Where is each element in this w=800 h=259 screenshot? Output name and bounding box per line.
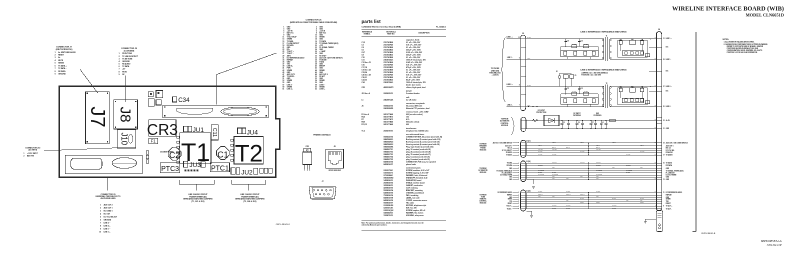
svg-text:56: 56 — [315, 82, 317, 84]
svg-text:DC INPUT: DC INPUT — [538, 110, 545, 112]
svg-text:DC VOL SELECT: DC VOL SELECT — [104, 217, 118, 219]
svg-text:DC THERM: DC THERM — [538, 174, 544, 176]
svg-text:GND: GND — [538, 196, 541, 198]
svg-text:GND: GND — [666, 128, 669, 130]
svg-text:MODULE: MODULE — [480, 150, 487, 152]
phone-line stub wires and labels — [507, 37, 521, 107]
svg-text:53: 53 — [282, 80, 284, 82]
svg-text:31: 31 — [282, 57, 284, 59]
svg-text:GND: GND — [666, 168, 669, 170]
svg-text:C17: C17 — [567, 88, 570, 90]
svg-text:RX+: RX+ — [287, 49, 290, 51]
svg-text:26: 26 — [315, 51, 317, 53]
capacitor C11 (board) — [211, 125, 219, 140]
svg-text:5: 5 — [100, 217, 101, 219]
svg-text:JU4: JU4 — [247, 129, 259, 136]
svg-text:LINE 2 −: LINE 2 − — [104, 223, 111, 225]
connector bus group 1 (left) — [521, 140, 526, 157]
svg-text:C6: C6 — [578, 122, 580, 124]
svg-text:8: 8 — [316, 33, 317, 35]
svg-text:27: 27 — [663, 86, 665, 88]
svg-text:19: 19 — [663, 142, 665, 144]
right bus pin labels — [655, 37, 688, 210]
capacitor network line 1 — [561, 38, 598, 59]
ground hook group 2 — [527, 179, 534, 184]
svg-text:27: 27 — [282, 53, 284, 55]
misc jumper label — [146, 151, 173, 163]
termination component at bus bottom — [656, 211, 663, 232]
group 2 left labels — [497, 162, 520, 181]
svg-text:FILTERING: FILTERING — [594, 115, 603, 117]
brace: to phone lines — [501, 38, 505, 102]
svg-text:LINE 2 INTERFACE / IMPEDANCE M: LINE 2 INTERFACE / IMPEDANCE MATCHING — [581, 68, 627, 71]
svg-text:R2 600: R2 600 — [584, 43, 588, 45]
svg-text:NC OUT: NC OUT — [104, 214, 111, 216]
svg-text:4: 4 — [55, 59, 56, 62]
svg-text:TO PHONE: TO PHONE — [491, 68, 499, 70]
svg-text:GND: GND — [552, 196, 555, 198]
bracket for T1 jumper group — [179, 180, 214, 191]
svg-text:5: 5 — [55, 63, 56, 65]
label: to phone lines — [489, 68, 501, 76]
svg-text:N/C: N/C — [666, 91, 668, 93]
svg-text:MIC LO: MIC LO — [666, 148, 672, 150]
parts list rows — [362, 39, 443, 217]
svg-text:LINE 1−: LINE 1− — [319, 84, 325, 86]
svg-text:C34: C34 — [178, 97, 190, 104]
svg-text:MODULE: MODULE — [480, 203, 487, 205]
svg-text:TX DATA −: TX DATA − — [58, 67, 66, 70]
svg-text:2-contact header: 2-contact header — [406, 92, 420, 95]
svg-text:GND: GND — [509, 168, 512, 170]
svg-text:PTC3: PTC3 — [161, 166, 179, 173]
svg-text:TX DATA: TX DATA — [122, 65, 130, 68]
svg-text:PL LINE DET: PL LINE DET — [666, 172, 675, 174]
svg-text:WIRELINE INTERFACE BOARD (WIB): WIRELINE INTERFACE BOARD (WIB) — [672, 5, 784, 12]
svg-text:PL DET: PL DET — [538, 172, 542, 174]
svg-text:TO/FROM: TO/FROM — [501, 119, 509, 121]
svg-text:CLN6651D Wireline Interface Bo: CLN6651D Wireline Interface Board (WIB) — [362, 26, 402, 29]
thermistor PTC3 (board) — [160, 163, 179, 173]
svg-text:13: 13 — [663, 179, 665, 181]
jumper JU4 (board) — [238, 128, 259, 136]
svg-text:PL LINE DETECT: PL LINE DETECT — [502, 172, 512, 174]
svg-text:25: 25 — [663, 106, 665, 108]
svg-text:2: 2 — [55, 55, 56, 57]
svg-text:RX AUDIO: RX AUDIO — [122, 63, 131, 66]
svg-text:C5: C5 — [563, 122, 565, 124]
svg-text:35: 35 — [282, 61, 284, 63]
svg-text:MIC LO: MIC LO — [596, 147, 600, 149]
svg-text:JU2: JU2 — [241, 169, 253, 176]
svg-text:17: 17 — [663, 155, 665, 157]
connector bus group 2 (left) — [521, 161, 526, 182]
svg-text:DC THERM: DC THERM — [596, 174, 602, 176]
svg-text:PL DET: PL DET — [626, 172, 630, 174]
parts list footnote — [362, 221, 447, 230]
svg-text:CONNECTOR J10: CONNECTOR J10 — [25, 147, 40, 149]
svg-text:GND: GND — [612, 167, 615, 169]
svg-text:L1: L1 — [362, 99, 364, 101]
notes block — [723, 39, 768, 54]
svg-text:DC INPUT: DC INPUT — [573, 113, 580, 115]
svg-text:CR3: CR3 — [306, 146, 309, 148]
svg-text:1: 1 — [24, 153, 25, 155]
svg-text:MODEL CLN6651D: MODEL CLN6651D — [746, 13, 784, 18]
svg-text:SYMBOL: SYMBOL — [364, 33, 371, 35]
svg-text:LINE 2 +: LINE 2 + — [104, 226, 111, 228]
leader line from J6 table to connector J6 on board — [216, 53, 276, 105]
svg-text:silicon, high speed, dual: silicon, high speed, dual — [406, 87, 426, 89]
svg-text:DC REF: DC REF — [596, 191, 601, 193]
svg-text:0611077A49: 0611077A49 — [384, 123, 394, 126]
svg-text:TXD: TXD — [666, 201, 669, 203]
svg-text:GND: GND — [666, 197, 669, 199]
svg-text:1: 1 — [283, 26, 284, 28]
svg-text:15: 15 — [663, 163, 665, 165]
small components C30-C33 cluster — [148, 91, 162, 107]
junction dots line 2 rail — [528, 106, 538, 107]
svg-text:20: 20 — [315, 45, 317, 47]
svg-text:AUX OUT 2: AUX OUT 2 — [104, 204, 113, 207]
svg-text:4: 4 — [100, 213, 101, 216]
svg-text:LINE 1 +: LINE 1 + — [666, 38, 672, 40]
svg-text:5: 5 — [283, 30, 284, 32]
svg-text:21: 21 — [663, 128, 665, 130]
impedance matching network line 1 — [618, 38, 651, 57]
svg-text:phone leads: phone leads — [406, 164, 416, 166]
svg-text:TXD: TXD — [626, 200, 628, 202]
svg-text:23: 23 — [663, 120, 665, 122]
svg-text:J6: J6 — [362, 105, 364, 107]
svg-text:MIC LO: MIC LO — [566, 147, 570, 149]
svg-text:33: 33 — [282, 59, 284, 61]
svg-text:BRDNP: BRDNP — [319, 66, 325, 68]
svg-text:+12V IN: +12V IN — [319, 30, 326, 32]
transformer T line 2 — [602, 83, 611, 108]
svg-text:N/C: N/C — [666, 47, 668, 49]
svg-text:15: 15 — [282, 41, 284, 43]
svg-text:62: 62 — [315, 88, 317, 90]
svg-text:LINE 2 +: LINE 2 + — [666, 86, 672, 88]
svg-text:T1: T1 — [606, 36, 608, 38]
svg-text:A+: A+ — [58, 56, 60, 59]
svg-text:PINNING DETAILS: PINNING DETAILS — [313, 134, 331, 137]
svg-text:GND: GND — [509, 197, 512, 199]
svg-text:29: 29 — [663, 59, 665, 61]
svg-text:2462587Q01: 2462587Q01 — [384, 98, 394, 101]
svg-text:8: 8 — [100, 226, 101, 228]
svg-text:RESET: RESET — [580, 202, 584, 204]
transformer T2 (board) — [231, 137, 263, 168]
svg-text:GND: GND — [552, 176, 555, 178]
svg-text:(T2, JU4 & JU2): (T2, JU4 & JU2) — [243, 200, 256, 203]
svg-text:(T1, JU1 & JU3): (T1, JU1 & JU3) — [191, 201, 204, 203]
svg-text:DC THERM: DC THERM — [552, 174, 558, 176]
svg-text:2: 2 — [24, 155, 25, 157]
svg-text:Motorola PTC protector; dual: Motorola PTC protector; dual — [406, 107, 430, 110]
svg-text:25: 25 — [282, 51, 284, 53]
svg-text:T2: T2 — [235, 141, 263, 168]
transformer T line 1 — [602, 36, 611, 61]
label DC input protection — [536, 110, 546, 114]
svg-text:(5.6 MODEM): (5.6 MODEM) — [124, 51, 135, 53]
svg-text:8: 8 — [55, 71, 56, 73]
svg-text:51: 51 — [282, 78, 284, 80]
svg-text:0905622V01: 0905622V01 — [384, 93, 394, 95]
svg-text:18: 18 — [315, 43, 317, 45]
svg-text:12: 12 — [315, 37, 317, 39]
svg-text:DC REMOTE: DC REMOTE — [479, 170, 488, 172]
connector J8 pinout callout — [119, 48, 139, 76]
svg-text:R1 600: R1 600 — [572, 43, 576, 45]
connector J8 (board) — [114, 100, 138, 129]
svg-text:GND: GND — [596, 178, 599, 180]
svg-text:RX DATA: RX DATA — [58, 70, 66, 73]
svg-text:19: 19 — [282, 45, 284, 47]
svg-text:DC REMOTE: DC REMOTE — [500, 121, 510, 123]
svg-text:TX MODE−: TX MODE− — [319, 59, 327, 61]
connector J7 pinout callout — [55, 47, 77, 76]
leader line from J7 callout to J7 connector — [80, 69, 98, 93]
connector J9 (board) — [65, 155, 142, 173]
svg-text:7: 7 — [283, 33, 284, 35]
svg-text:parts list: parts list — [362, 19, 382, 24]
svg-text:CONTROL: CONTROL — [479, 201, 486, 203]
svg-text:LINE 2 +: LINE 2 + — [507, 84, 513, 86]
svg-text:TXD: TXD — [640, 200, 642, 202]
svg-text:GND: GND — [509, 177, 512, 179]
svg-text:61: 61 — [282, 88, 284, 90]
svg-text:6: 6 — [316, 30, 317, 32]
diode CR3 protection box — [544, 115, 559, 125]
svg-text:TX THERM: TX THERM — [538, 169, 544, 171]
svg-text:TXD: TXD — [566, 200, 568, 202]
group labels above wires — [526, 141, 531, 193]
svg-text:DC VOL SEL: DC VOL SEL — [666, 150, 675, 152]
svg-text:SENSE: SENSE — [58, 63, 65, 65]
svg-text:J8: J8 — [117, 107, 134, 123]
svg-text:GND: GND — [640, 167, 643, 169]
svg-text:POSITIONS 1 & 2 = 600 OHM: POSITIONS 1 & 2 = 600 OHM — [581, 74, 601, 76]
svg-text:LINE 1 INTERFACE / IMPEDANCE M: LINE 1 INTERFACE / IMPEDANCE MATCHING — [581, 30, 627, 33]
svg-text:LINE 1 +: LINE 1 + — [507, 37, 513, 39]
svg-text:F1: F1 — [151, 139, 157, 144]
fuse F1 (schematic) — [533, 119, 538, 122]
svg-text:PTC1: PTC1 — [211, 166, 229, 173]
svg-text:C9: C9 — [575, 75, 577, 77]
stub wires into right bus — [649, 47, 657, 91]
connector J10 callout — [24, 147, 41, 157]
svg-text:3: 3 — [55, 57, 56, 59]
svg-text:MODULE: MODULE — [501, 125, 508, 127]
impedance matching network line 2 — [618, 86, 651, 105]
svg-text:59: 59 — [282, 86, 284, 88]
svg-text:(WIB TO/FROM PSU): (WIB TO/FROM PSU) — [56, 49, 73, 51]
svg-text:1505872V01: 1505872V01 — [384, 215, 394, 217]
svg-text:N/C: N/C — [666, 71, 668, 73]
svg-text:17: 17 — [282, 43, 284, 45]
svg-text:C34: C34 — [362, 81, 365, 84]
svg-text:J8: J8 — [334, 146, 336, 148]
svg-text:4X4 PHONE LINES: 4X4 PHONE LINES — [101, 197, 117, 200]
svg-text:TO/FROM: TO/FROM — [480, 168, 488, 170]
svg-text:REFERENCE: REFERENCE — [362, 31, 372, 33]
svg-text:PL LINE DETECT: PL LINE DETECT — [287, 43, 300, 45]
svg-text:16: 16 — [315, 41, 317, 43]
svg-text:GROUND: GROUND — [58, 74, 66, 76]
svg-text:DC SIG THERM: DC SIG THERM — [666, 175, 677, 177]
svg-text:3: 3 — [283, 28, 284, 30]
svg-text:4805129M73: 4805129M73 — [384, 86, 394, 89]
label to/from paging module — [479, 144, 487, 152]
jumper JU1 (board) — [184, 126, 205, 134]
svg-text:CR3: CR3 — [147, 122, 178, 139]
svg-text:600: 600 — [406, 124, 409, 126]
J8 modular jack drawing — [326, 146, 344, 172]
svg-text:GND: GND — [596, 196, 599, 198]
thermistor PTC1 (board) — [210, 163, 229, 173]
svg-text:TX DATA +: TX DATA + — [58, 64, 66, 67]
line 2 interface wires — [526, 85, 657, 107]
svg-text:MIC LO: MIC LO — [508, 148, 512, 150]
svg-text:GROUND: GROUND — [104, 220, 112, 222]
svg-text:PL-12345-O: PL-12345-O — [436, 26, 446, 29]
svg-text:A+ SWITCHED AUDIO: A+ SWITCHED AUDIO — [58, 51, 76, 54]
svg-text:9: 9 — [283, 35, 284, 37]
svg-text:DC REF: DC REF — [538, 191, 543, 193]
svg-text:J7: J7 — [322, 181, 324, 183]
svg-text:39: 39 — [282, 66, 284, 68]
svg-text:58: 58 — [315, 84, 317, 86]
line 2 audio circuit caption — [183, 193, 213, 203]
connector J7 (board) — [86, 92, 110, 144]
svg-text:J9: J9 — [522, 33, 524, 35]
svg-text:R2 600: R2 600 — [584, 91, 588, 93]
svg-text:DC VOL SELECT: DC VOL SELECT — [502, 150, 512, 152]
svg-text:LINE B+: LINE B+ — [287, 66, 293, 68]
label to/from dc remote 2 — [479, 168, 488, 174]
line 1 interface wires — [526, 37, 657, 59]
svg-text:LINE 1 -: LINE 1 - — [666, 59, 672, 61]
parts list table header — [362, 29, 447, 36]
leader line from J10 callout to J10 — [44, 148, 117, 151]
svg-text:2360572A01: 2360572A01 — [384, 81, 394, 84]
svg-text:DC REF: DC REF — [566, 191, 571, 193]
svg-text:37: 37 — [282, 64, 284, 66]
svg-text:9: 9 — [119, 74, 120, 76]
leader line to connector J9 caption — [107, 178, 109, 190]
diode CR3 (board) — [147, 120, 178, 139]
svg-text:2: 2 — [316, 26, 317, 28]
svg-text:+12 DC INPUT: +12 DC INPUT — [27, 153, 38, 155]
svg-text:C15: C15 — [580, 41, 583, 43]
wire group 2 — [526, 161, 657, 180]
svg-text:PUNCHBLOCK: PUNCHBLOCK — [489, 72, 501, 74]
svg-text:C17: C17 — [567, 41, 570, 43]
svg-text:LINE 1+: LINE 1+ — [319, 88, 325, 90]
svg-text:TX MODE −: TX MODE − — [287, 76, 295, 78]
svg-text:LINE 1 −: LINE 1 − — [104, 229, 111, 231]
svg-text:10 (25): 10 (25) — [527, 37, 531, 39]
connector J6 pinout table — [282, 20, 343, 91]
svg-text:VOL SEL: VOL SEL — [596, 149, 601, 151]
svg-text:29: 29 — [282, 55, 284, 57]
jumper JU3 (board) — [184, 161, 206, 171]
label DC input filtering — [573, 113, 582, 117]
svg-text:2: 2 — [100, 208, 101, 210]
svg-text:38: 38 — [315, 64, 317, 66]
svg-text:11: 11 — [283, 37, 285, 39]
capacitor network line 2 — [561, 86, 598, 107]
svg-text:31: 31 — [663, 38, 665, 40]
svg-text:LINE 2−: LINE 2− — [287, 84, 293, 86]
svg-text:CR3: CR3 — [362, 87, 365, 89]
svg-text:LINE 1 -: LINE 1 - — [507, 57, 513, 59]
page fold line — [693, 32, 696, 232]
ground hook group 3 — [527, 211, 532, 215]
svg-text:RESET: RESET — [640, 202, 644, 204]
svg-text:J7: J7 — [86, 106, 108, 127]
svg-text:2505579V01: 2505579V01 — [384, 130, 394, 132]
svg-text:28: 28 — [315, 53, 317, 55]
svg-text:RESET: RESET — [58, 55, 65, 57]
svg-text:telephone line; 600/900 ohm: telephone line; 600/900 ohm — [406, 129, 429, 132]
svg-text:L1: L1 — [602, 122, 604, 124]
svg-text:C11: C11 — [211, 128, 217, 137]
connector J6 bus (schematic right) — [656, 29, 661, 210]
wire group 1 — [526, 141, 657, 156]
svg-text:52: 52 — [315, 78, 317, 80]
svg-text:GND: GND — [666, 177, 669, 179]
svg-text:8405816V07: 8405816V07 — [384, 163, 394, 166]
svg-text:3/01/02-UP: 3/01/02-UP — [767, 243, 782, 247]
svg-text:9: 9 — [100, 229, 101, 231]
svg-text:JU3: JU3 — [189, 162, 201, 169]
svg-text:+ J-BOX): + J-BOX) — [492, 75, 499, 77]
svg-text:GND: GND — [580, 176, 583, 178]
svg-text:OFFICE SIDE VIEW: OFFICE SIDE VIEW — [328, 170, 341, 172]
svg-text:2.2 uH choke: 2.2 uH choke — [406, 99, 416, 101]
title: WIRELINE INTERFACE BOARD (WIB) — [672, 5, 784, 17]
svg-text:LINE 2+: LINE 2+ — [287, 88, 293, 90]
relay K1 line 2 — [556, 71, 577, 87]
svg-text:+12V IN: +12V IN — [287, 30, 294, 32]
svg-text:0983929M01: 0983929M01 — [384, 108, 394, 110]
svg-text:J2 (J1): J2 (J1) — [526, 141, 531, 143]
svg-text:TX THERM: TX THERM — [596, 169, 602, 171]
parts list heading — [362, 19, 447, 28]
svg-text:AUX OUT 1: AUX OUT 1 — [104, 207, 113, 210]
svg-text:21: 21 — [282, 47, 284, 49]
svg-text:LINE 2 -: LINE 2 - — [666, 106, 672, 108]
svg-text:1: 1 — [55, 52, 56, 54]
svg-text:NOTES:: NOTES: — [723, 39, 730, 41]
DC filter capacitors — [561, 119, 616, 129]
svg-text:RESET: RESET — [666, 203, 671, 205]
svg-text:10 (25): 10 (25) — [527, 85, 531, 87]
capacitor C1 (board) — [216, 147, 229, 160]
svg-text:50: 50 — [315, 76, 317, 78]
svg-text:TXD: TXD — [509, 201, 512, 203]
svg-text:VOL SEL: VOL SEL — [538, 149, 543, 151]
svg-text:1: 1 — [100, 205, 101, 207]
svg-text:10: 10 — [99, 232, 101, 234]
line 1 audio circuit caption — [235, 193, 265, 203]
capacitor C2 (board) — [168, 147, 181, 160]
svg-text:C7: C7 — [592, 122, 594, 124]
connector J6 (board, long) — [163, 105, 269, 118]
